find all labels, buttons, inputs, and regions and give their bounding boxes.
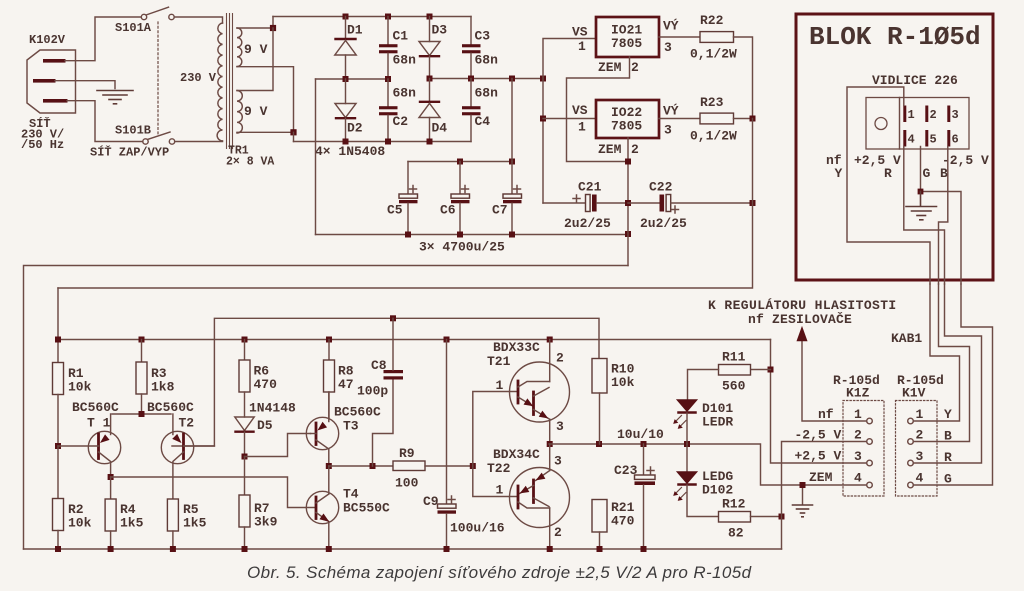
svg-text:C5: C5	[387, 203, 403, 218]
junction bottom rail T22	[547, 546, 553, 552]
resistor R9 100	[393, 446, 473, 491]
svg-text:BC550C: BC550C	[343, 501, 390, 516]
junction bottom rail at D4	[427, 139, 433, 145]
svg-text:VÝ: VÝ	[663, 104, 679, 119]
junction node A	[270, 25, 276, 31]
svg-text:470: 470	[611, 514, 635, 529]
svg-text:G: G	[944, 472, 952, 487]
wire T1 collector to T4 base	[111, 477, 316, 508]
svg-text:1: 1	[578, 120, 586, 135]
svg-text:VS: VS	[572, 103, 588, 118]
svg-text:3: 3	[664, 40, 672, 55]
K1Z pin 1	[854, 407, 872, 424]
wire collector node to R9	[329, 465, 393, 467]
transformer TR1 secondary winding 2 (9V)	[237, 91, 268, 134]
wire nf/Y inside BLOK	[847, 87, 930, 284]
junction mid-right at C7 feed	[509, 76, 515, 82]
svg-text:BC560C: BC560C	[334, 405, 381, 420]
capacitor C6 4700u	[440, 162, 470, 235]
svg-text:C2: C2	[393, 114, 409, 129]
svg-text:5: 5	[930, 133, 937, 147]
diode D3	[419, 17, 447, 79]
transistor T3 BC560C	[306, 392, 381, 466]
capacitor C9 100u/16	[423, 340, 505, 550]
resistor R22 0,1/2W	[690, 13, 737, 62]
resistor R4 1k5	[105, 477, 144, 549]
svg-text:2: 2	[854, 428, 862, 443]
VIDLICE pin 4	[903, 130, 914, 147]
junction T1 base node	[55, 443, 61, 449]
svg-text:2: 2	[916, 428, 924, 443]
svg-text:T4: T4	[343, 487, 359, 502]
wire R inside BLOK	[904, 147, 945, 285]
wire ZEM ground stub at K1Z	[802, 485, 804, 505]
wire T1 T2 emitter link	[112, 413, 171, 415]
wire plug pin2 to ground	[55, 81, 115, 89]
junction G at ground	[918, 189, 924, 195]
wire IO21 output to R22	[659, 36, 700, 38]
svg-text:0,1/2W: 0,1/2W	[690, 47, 737, 62]
junction driver node R9 right	[470, 463, 476, 469]
diode D4	[419, 79, 447, 142]
svg-text:S101A: S101A	[115, 21, 152, 35]
junction output line at C23	[641, 441, 647, 447]
resistor R23 0,1/2W	[690, 95, 737, 144]
connector K102V mains plug	[21, 33, 76, 152]
VIDLICE pin 6	[947, 130, 958, 147]
junction mid-left at D1/D2	[343, 76, 349, 82]
svg-text:S101B: S101B	[115, 124, 151, 138]
transistor T4 BC550C	[306, 466, 390, 549]
ganged switch dotted link	[157, 22, 159, 136]
svg-text:-2,5 V: -2,5 V	[795, 428, 842, 443]
wire filter caps bottom rail	[316, 234, 629, 236]
capacitor C3 68n	[462, 17, 498, 79]
connector K1Z dotted box	[833, 373, 884, 496]
transformer TR1 primary winding 230V	[180, 23, 223, 141]
svg-text:VS: VS	[572, 25, 588, 40]
resistor R3 1k8	[136, 340, 175, 415]
diode D5 1N4148	[235, 401, 296, 457]
svg-text:BC560C: BC560C	[147, 400, 194, 415]
svg-text:1: 1	[578, 39, 586, 54]
wire T22 bottom to minus rail	[549, 508, 551, 549]
K1Z pin 4	[854, 471, 872, 488]
transformer TR1 secondary winding 1 (9V)	[237, 28, 268, 66]
resistor R11 560	[688, 350, 771, 401]
svg-text:47: 47	[338, 377, 354, 392]
svg-text:T 1: T 1	[87, 416, 111, 431]
svg-text:2u2/25: 2u2/25	[564, 216, 611, 231]
svg-text:K1V: K1V	[902, 386, 926, 401]
diode D2	[335, 79, 363, 142]
wire bottom minus rail	[24, 548, 782, 550]
svg-text:9 V: 9 V	[244, 42, 268, 57]
junction R11 right	[768, 367, 774, 373]
wire R22 to output column	[734, 37, 753, 119]
capacitor C4 68n	[462, 79, 498, 142]
capacitor C21 2u2/25	[543, 180, 628, 232]
svg-text:C1: C1	[393, 29, 409, 44]
ground symbol at plug	[97, 91, 133, 104]
resistor R12 82	[719, 497, 782, 541]
junction rail2 at R3	[139, 337, 145, 343]
svg-text:68n: 68n	[475, 53, 499, 68]
svg-text:2: 2	[631, 60, 639, 75]
svg-text:3: 3	[854, 449, 862, 464]
junction D5 cathode node	[242, 454, 248, 460]
diode D1	[335, 17, 363, 80]
svg-text:C23: C23	[614, 463, 638, 478]
svg-text:2: 2	[930, 108, 937, 122]
wire IO21 ZEM pin	[567, 57, 630, 162]
K1V pin 3	[908, 449, 924, 466]
wire nf arrow to K1Z pin1	[802, 340, 867, 421]
junction bottom rail at D2	[343, 139, 349, 145]
svg-text:0,1/2W: 0,1/2W	[690, 129, 737, 144]
svg-text:C21: C21	[578, 180, 602, 195]
wire T22 top to output node	[549, 444, 551, 471]
svg-text:T21: T21	[487, 354, 511, 369]
svg-text:ZEM: ZEM	[598, 60, 622, 75]
junction C8 tap on collector wire	[370, 463, 376, 469]
transformer TR1 core	[227, 14, 233, 149]
svg-text:2× 8 VA: 2× 8 VA	[226, 156, 274, 169]
K1V pin 2	[908, 428, 924, 445]
junction ZEM column at C21/C22	[625, 200, 631, 206]
svg-text:D2: D2	[347, 121, 363, 136]
svg-text:LEDR: LEDR	[702, 415, 733, 430]
K1Z pin 2	[854, 428, 872, 445]
svg-text:+2,5 V: +2,5 V	[854, 153, 901, 168]
junction rail2 at T21 collector	[547, 337, 553, 343]
svg-text:560: 560	[722, 379, 746, 394]
wire mid-left net rail	[316, 78, 389, 80]
svg-text:4: 4	[854, 471, 862, 486]
svg-text:3× 4700u/25: 3× 4700u/25	[419, 240, 505, 255]
svg-text:D102: D102	[702, 483, 733, 498]
wire output node ZEM line	[549, 444, 867, 485]
svg-text:1k5: 1k5	[183, 516, 207, 531]
LED D101 LEDR	[673, 400, 733, 444]
svg-text:B: B	[940, 166, 948, 181]
arrow to volume regulator	[798, 328, 807, 341]
junction caps bottom at C7	[509, 232, 515, 238]
svg-text:9 V: 9 V	[244, 104, 268, 119]
VIDLICE pin 3	[947, 106, 958, 123]
svg-text:2u2/25: 2u2/25	[640, 216, 687, 231]
svg-text:1N4148: 1N4148	[249, 401, 296, 416]
junction output node at T21/T22	[547, 441, 553, 447]
svg-text:G: G	[923, 166, 931, 181]
wire VS to IO22	[543, 118, 596, 120]
wire AC top rail	[273, 16, 471, 18]
junction mid-right at VS feed	[540, 76, 546, 82]
wire S101B to TR1 primary bottom	[175, 141, 223, 143]
junction bottom rail R2	[55, 546, 61, 552]
svg-text:10k: 10k	[68, 380, 92, 395]
svg-text:3: 3	[556, 419, 564, 434]
wire VS feed column	[543, 39, 596, 204]
wire secondary2 bottom to node B	[237, 131, 294, 133]
svg-text:68n: 68n	[393, 86, 417, 101]
svg-text:BDX33C: BDX33C	[493, 340, 540, 355]
capacitor C23 10u/10	[614, 427, 664, 549]
svg-text:100: 100	[395, 476, 419, 491]
connector VIDLICE 226 body	[866, 98, 969, 150]
capacitor C8 100p	[357, 318, 403, 466]
wire B inside BLOK	[939, 147, 948, 285]
svg-text:C8: C8	[371, 358, 387, 373]
svg-text:230 V: 230 V	[180, 71, 217, 85]
junction mid-right at D3/D4	[427, 76, 433, 82]
capacitor C7 4700u	[492, 162, 522, 235]
svg-text:ZEM: ZEM	[809, 470, 833, 485]
wire rail2 to R11 column	[771, 340, 867, 464]
VIDLICE pin 2	[925, 106, 936, 123]
junction mid-left at C1/C2	[385, 76, 391, 82]
junction mid-right at C3/C4	[468, 76, 474, 82]
svg-text:1: 1	[916, 407, 924, 422]
wire mid-left net down to filter bottom rail	[315, 79, 317, 235]
svg-text:+2,5 V: +2,5 V	[795, 449, 842, 464]
capacitor C2 68n	[379, 79, 416, 142]
junction T1 collector node	[108, 474, 114, 480]
wire driver node to T22 base	[473, 466, 518, 497]
resistor R10 10k	[592, 359, 635, 445]
svg-text:C7: C7	[492, 203, 508, 218]
junction output line at R10	[596, 441, 602, 447]
svg-text:68n: 68n	[393, 53, 417, 68]
junction bottom rail T4	[326, 546, 332, 552]
svg-text:C22: C22	[649, 180, 673, 195]
svg-text:7805: 7805	[611, 36, 642, 51]
K1Z pin 3	[854, 449, 872, 466]
svg-text:100u/16: 100u/16	[450, 521, 505, 536]
svg-text:R: R	[884, 166, 892, 181]
wire minus column -2,5V	[782, 442, 867, 550]
resistor R6 470	[239, 340, 277, 418]
LED D102 LEDG	[673, 444, 733, 517]
svg-text:T22: T22	[487, 461, 511, 476]
svg-text:Obr. 5. Schéma zapojení síťové: Obr. 5. Schéma zapojení síťového zdroje …	[247, 563, 752, 582]
svg-text:K1Z: K1Z	[846, 386, 870, 401]
junction emitters at R3	[139, 411, 145, 417]
junction output column at R23	[750, 116, 756, 122]
wire AC bottom rail	[294, 141, 472, 143]
svg-text:82: 82	[728, 526, 744, 541]
svg-text:KAB1: KAB1	[891, 331, 922, 346]
wire node A down to secondary2 top	[237, 28, 273, 91]
junction top rail at D3	[427, 14, 433, 20]
wire IO22 ZEM pin down ZEM column	[627, 138, 629, 266]
junction rail2 at C9 column	[444, 337, 450, 343]
svg-text:K REGULÁTORU HLASITOSTI: K REGULÁTORU HLASITOSTI	[708, 298, 897, 313]
svg-text:R23: R23	[700, 95, 724, 110]
junction bottom rail C23	[641, 546, 647, 552]
junction minus column at R12	[779, 514, 785, 520]
wire mid-right net rail	[430, 78, 544, 80]
svg-text:100p: 100p	[357, 384, 388, 399]
wire T21 collector to rail2	[549, 340, 551, 382]
svg-text:68n: 68n	[475, 86, 499, 101]
junction caps bottom at C6	[457, 232, 463, 238]
junction bottom rail R7	[242, 546, 248, 552]
svg-text:1: 1	[854, 407, 862, 422]
capacitor C22 2u2/25	[628, 180, 753, 232]
svg-text:470: 470	[254, 377, 278, 392]
svg-text:2: 2	[631, 142, 639, 157]
junction output column at C22	[750, 200, 756, 206]
junction caps bottom at ZEM column	[625, 231, 631, 237]
junction top rail at C1	[385, 14, 391, 20]
wire plug pin1 to switch S101A	[65, 17, 141, 61]
svg-text:10k: 10k	[611, 375, 635, 390]
VIDLICE pin 5	[925, 130, 936, 147]
svg-text:7805: 7805	[611, 119, 642, 134]
svg-text:Y: Y	[944, 407, 952, 422]
svg-text:nf: nf	[818, 407, 834, 422]
wire filter caps top rail	[408, 161, 512, 163]
svg-text:T3: T3	[343, 419, 359, 434]
K1V pin 4	[908, 471, 924, 488]
transistor T22 BDX34C	[487, 447, 570, 540]
resistor R2 10k	[53, 446, 92, 549]
svg-text:6: 6	[952, 133, 959, 147]
resistor R5 1k5	[167, 499, 206, 549]
svg-text:R9: R9	[399, 446, 415, 461]
junction ZEM column upper	[625, 159, 631, 165]
resistor R21 470	[592, 500, 635, 550]
VIDLICE pin 1	[903, 106, 914, 123]
svg-text:1k5: 1k5	[120, 516, 144, 531]
junction rail2 at R8	[326, 337, 332, 343]
svg-text:2: 2	[554, 525, 562, 540]
wire node B to bridge lower rail	[293, 132, 295, 141]
junction top rail at D1	[343, 14, 349, 20]
svg-text:C6: C6	[440, 203, 456, 218]
svg-text:-2,5 V: -2,5 V	[942, 153, 989, 168]
resistor R1 10k	[53, 363, 92, 395]
svg-text:4: 4	[908, 133, 915, 147]
ground symbol in BLOK	[906, 192, 937, 220]
svg-text:BLOK R-1Ø5d: BLOK R-1Ø5d	[809, 22, 981, 52]
switch S101A	[115, 7, 174, 35]
svg-text:3: 3	[952, 108, 959, 122]
svg-text:1: 1	[496, 483, 504, 498]
svg-text:D5: D5	[257, 418, 273, 433]
junction VS feed at IO22 input	[540, 116, 546, 122]
wire KAB1 R to K1V pin3	[913, 284, 981, 463]
svg-text:VÝ: VÝ	[663, 19, 679, 34]
svg-text:3k9: 3k9	[254, 515, 278, 530]
wire R23 to output column	[734, 118, 753, 120]
capacitor C1 68n	[379, 17, 416, 80]
svg-text:1: 1	[496, 378, 504, 393]
junction rail2 at R6	[242, 337, 248, 343]
svg-text:D3: D3	[432, 23, 448, 38]
wire feedback rail1 to T2 base	[172, 318, 599, 446]
capacitor C5 4700u	[387, 162, 418, 235]
wire KAB1 Y to K1V pin1	[913, 284, 959, 421]
transistor T1 BC560C	[58, 400, 121, 477]
svg-text:R22: R22	[700, 13, 724, 28]
junction caps top at C7	[509, 159, 515, 165]
wire T21 emitter to output node	[549, 419, 551, 444]
junction T3/T4 collector node	[326, 463, 332, 469]
junction bottom rail at C2	[385, 139, 391, 145]
svg-text:C4: C4	[475, 114, 491, 129]
svg-text:SÍŤ ZAP/VYP: SÍŤ ZAP/VYP	[90, 145, 169, 160]
svg-text:2: 2	[556, 351, 564, 366]
svg-text:nf ZESILOVAČE: nf ZESILOVAČE	[748, 312, 852, 327]
svg-text:3: 3	[664, 123, 672, 138]
svg-text:D4: D4	[432, 121, 448, 136]
connector K1V dotted box	[896, 373, 944, 496]
junction node B	[290, 129, 296, 135]
wire driver node to T21 base	[473, 392, 518, 467]
junction bottom rail C9	[444, 546, 450, 552]
wire +2,5V rail2 horizontal	[58, 288, 771, 363]
regulator IO22 7805	[572, 100, 679, 157]
svg-text:3: 3	[916, 449, 924, 464]
ground symbol at K1Z	[793, 505, 813, 517]
svg-text:C3: C3	[475, 29, 491, 44]
wire secondary1 bottom to node B	[237, 67, 294, 133]
junction ZEM wire at ground	[800, 482, 806, 488]
svg-text:3: 3	[554, 454, 562, 469]
svg-text:BDX34C: BDX34C	[493, 447, 540, 462]
transistor T21 BDX33C	[487, 340, 570, 434]
junction rail2 at R1 column	[55, 337, 61, 343]
svg-text:C9: C9	[423, 494, 439, 509]
wire plug pin3 to switch S101B	[67, 101, 143, 142]
junction rail1 at C8	[390, 315, 396, 321]
junction caps bottom at C5	[405, 232, 411, 238]
wire G inside BLOK	[921, 147, 962, 285]
svg-text:BC560C: BC560C	[72, 400, 119, 415]
wire R1 bottom to T1 base node	[57, 395, 59, 447]
svg-text:K102V: K102V	[29, 33, 66, 47]
svg-text:D1: D1	[347, 23, 363, 38]
wire IO22 output to R23	[659, 118, 700, 120]
svg-text:4: 4	[916, 471, 924, 486]
svg-text:R12: R12	[722, 497, 746, 512]
svg-text:4× 1N5408: 4× 1N5408	[315, 144, 385, 159]
wire plus raw feed down to caps	[511, 79, 513, 162]
junction bottom rail R5	[170, 546, 176, 552]
wire KAB1 B to K1V pin2	[913, 284, 969, 442]
wire D5 node to T3 base	[245, 434, 311, 457]
regulator IO21 7805	[572, 17, 679, 75]
junction bottom rail R21	[597, 546, 603, 552]
transistor T2 BC560C	[147, 400, 214, 499]
resistor R8 47	[324, 340, 354, 419]
wire output column down to +rail	[58, 119, 753, 289]
svg-text:1: 1	[908, 108, 915, 122]
K1V pin 1	[908, 407, 924, 424]
svg-text:VIDLICE 226: VIDLICE 226	[872, 73, 958, 88]
wire secondary1 top to AC node A	[237, 17, 273, 29]
wire KAB1 G to K1V pin4	[913, 284, 992, 485]
svg-text:ZEM: ZEM	[598, 142, 622, 157]
svg-text:T2: T2	[179, 416, 195, 431]
svg-text:10u/10: 10u/10	[617, 427, 664, 442]
wire S101A to TR1 primary top	[174, 17, 222, 23]
svg-text:Y: Y	[835, 166, 843, 181]
switch S101B	[90, 124, 175, 160]
svg-text:R11: R11	[722, 350, 746, 365]
